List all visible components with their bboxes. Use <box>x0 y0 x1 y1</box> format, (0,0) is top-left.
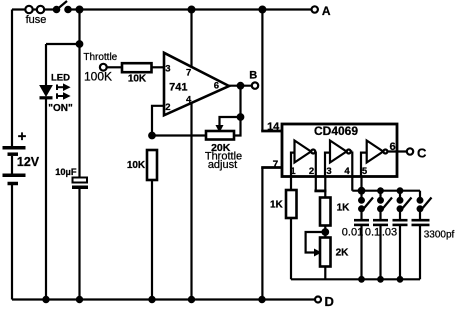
switch S4 <box>398 191 412 212</box>
svg-text:LED: LED <box>51 72 70 83</box>
switch S5 <box>418 191 432 212</box>
svg-text:fuse: fuse <box>26 14 47 26</box>
svg-text:A: A <box>322 4 331 18</box>
node pin14 top rail <box>260 7 266 13</box>
terminal A <box>312 6 318 12</box>
inverter U2A <box>295 141 316 163</box>
node output junction <box>238 83 244 89</box>
wire battery to bottom rail <box>11 185 13 300</box>
node switch bus s3 <box>398 188 403 193</box>
wire pin14 line <box>261 10 282 132</box>
wire R4 to lower bus <box>290 218 292 279</box>
node top junction to LED/cap branch <box>77 7 83 13</box>
2K wiper arrowhead <box>315 249 321 255</box>
svg-text:2K: 2K <box>336 248 350 259</box>
wire R2 to bottom rail <box>151 180 153 300</box>
svg-text:0.01: 0.01 <box>342 227 363 239</box>
svg-text:14: 14 <box>267 121 280 133</box>
svg-text:.03: .03 <box>382 227 397 239</box>
switch S2 <box>359 191 373 212</box>
svg-text:2: 2 <box>165 102 170 113</box>
svg-text:10K: 10K <box>127 160 146 171</box>
wire output down to pot <box>234 86 241 136</box>
IC U2 CD4069 box <box>282 124 397 177</box>
svg-text:1K: 1K <box>337 203 351 214</box>
wire pin1 inside <box>291 153 295 176</box>
svg-text:D: D <box>325 294 334 309</box>
node bottom pin4 branch <box>189 297 194 302</box>
svg-text:7: 7 <box>186 68 191 79</box>
node pin7 top rail <box>189 7 195 13</box>
svg-text:adjust: adjust <box>208 159 237 171</box>
wire pin2 elbow <box>152 106 164 136</box>
wire inv3 output to C <box>387 150 406 152</box>
wire pin3 below box <box>324 177 326 198</box>
wire LED branch vertical upper <box>45 44 47 85</box>
fuse F1 <box>25 6 44 13</box>
switch S3 <box>378 191 392 212</box>
wire top rail right segment <box>67 8 312 10</box>
node pin4 pin5 junction <box>359 188 365 194</box>
wire pin4 down <box>190 100 192 300</box>
svg-text:1: 1 <box>290 166 296 177</box>
node pin2 junction <box>149 133 155 139</box>
capacitor C1 10uF <box>72 178 88 190</box>
svg-text:2: 2 <box>309 166 314 177</box>
wire bottom rail <box>12 298 315 300</box>
svg-text:3: 3 <box>326 166 331 177</box>
resistor R4 1K <box>286 190 297 218</box>
svg-text:4: 4 <box>186 95 192 106</box>
wire top rail left segment <box>12 8 58 10</box>
svg-text:4: 4 <box>344 166 350 177</box>
wire LED branch horizontal <box>46 43 80 45</box>
svg-text:3300pf: 3300pf <box>424 230 455 241</box>
node bottom LED branch <box>43 297 48 302</box>
wire pin2 below box elbow <box>314 177 326 191</box>
wire mid horizontal to pot <box>152 134 206 136</box>
node wiper junction <box>238 114 244 120</box>
wire lower bus <box>291 278 420 280</box>
svg-text:741: 741 <box>169 82 187 94</box>
capacitor C2 0.01 <box>354 209 369 279</box>
svg-text:CD4069: CD4069 <box>314 124 358 138</box>
potentiometer throttle 100K terminal <box>100 64 107 71</box>
inverter U2C <box>367 141 388 163</box>
capacitor C5 3300pf <box>412 209 430 279</box>
wire inv1 output <box>314 152 317 177</box>
potentiometer R6 2K <box>320 238 331 267</box>
wire branch x=79.5 lower <box>78 189 80 300</box>
resistor R5 1K <box>320 198 331 226</box>
LED emission arrows <box>57 84 70 99</box>
wire inv2 output <box>351 152 353 177</box>
wire wiper <box>220 117 241 126</box>
svg-text:10K: 10K <box>128 74 147 85</box>
svg-text:3: 3 <box>165 64 170 75</box>
wire R5 to R6 <box>324 226 326 238</box>
switch S1 (power) <box>54 1 71 12</box>
svg-text:C: C <box>417 146 427 161</box>
node R5 R6 junction <box>323 229 329 235</box>
wire pin5 below box <box>360 177 362 191</box>
svg-text:6: 6 <box>389 141 395 153</box>
resistor R1 10K <box>122 63 152 72</box>
node C2 lower bus <box>359 277 364 282</box>
node bottom cap branch <box>77 297 82 302</box>
node bottom 10K branch <box>149 297 154 302</box>
svg-text:B: B <box>249 70 257 82</box>
wire pin4 below box elbow <box>352 177 361 191</box>
inverter U2B <box>330 141 351 163</box>
svg-text:6: 6 <box>214 81 219 92</box>
wire switch bus <box>362 190 421 192</box>
terminal C <box>407 148 413 154</box>
wire pin3 inside <box>325 153 330 176</box>
svg-text:+: + <box>18 128 27 145</box>
node C4 lower bus <box>398 277 403 282</box>
wiper arrowhead <box>216 126 222 132</box>
wire pin5 inside <box>361 153 367 176</box>
node bottom pin7 branch <box>259 297 264 302</box>
wire pin7 4069 <box>261 168 282 300</box>
terminal D <box>315 297 321 303</box>
LED D1 <box>40 86 53 98</box>
svg-text:10µF: 10µF <box>55 167 77 177</box>
op-amp U1 741 <box>164 53 229 116</box>
wire op-amp output <box>229 85 252 87</box>
svg-text:0.1: 0.1 <box>365 227 380 239</box>
svg-text:100K: 100K <box>84 70 112 84</box>
capacitor C4 .03 <box>393 209 408 279</box>
wire LED branch vertical lower <box>45 99 47 300</box>
node switch bus s2 <box>378 188 383 193</box>
svg-text:"ON": "ON" <box>48 103 73 114</box>
svg-text:1K: 1K <box>270 200 284 211</box>
svg-text:5: 5 <box>362 166 368 177</box>
node C3 lower bus <box>378 277 383 282</box>
wire R6 to lower bus <box>324 267 326 280</box>
wire pin1 below box <box>290 177 292 191</box>
svg-text:12V: 12V <box>17 155 40 169</box>
wire throttle to R1 <box>107 66 123 68</box>
wire R1 to pin3 <box>152 66 165 68</box>
wire wiper loop 2K <box>306 232 326 253</box>
terminal B <box>252 82 258 88</box>
svg-text:Throttle: Throttle <box>83 52 117 63</box>
capacitor C3 0.1 <box>373 209 388 279</box>
resistor R2 10K vertical <box>147 150 157 180</box>
svg-text:7: 7 <box>273 160 279 171</box>
wire branch x=79.5 upper <box>78 10 80 178</box>
potentiometer R3 20K <box>206 131 234 140</box>
node LED branch junction <box>77 41 83 47</box>
battery B1 12V <box>3 148 26 184</box>
wire pin7 to top rail <box>190 10 192 71</box>
wire left rail <box>11 10 13 147</box>
